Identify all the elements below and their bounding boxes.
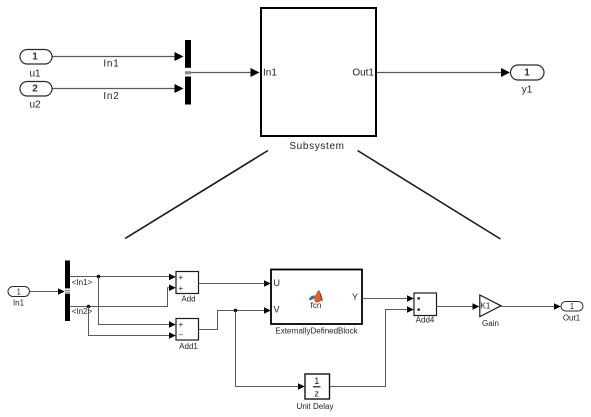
svg-text:y1: y1 bbox=[522, 85, 533, 96]
sum block Add bbox=[176, 272, 199, 304]
svg-text:+: + bbox=[179, 284, 184, 293]
inport In1 (lower) bbox=[8, 287, 30, 308]
svg-text:+: + bbox=[179, 320, 184, 329]
svg-text:Y: Y bbox=[352, 292, 358, 302]
wire Add1 to ExternallyDefinedBlock V bbox=[199, 307, 271, 329]
subsystem Subsystem bbox=[261, 8, 376, 152]
svg-text:V: V bbox=[274, 305, 280, 315]
svg-text:1: 1 bbox=[314, 376, 319, 387]
wire signal In2 branch to Add1 port2 bbox=[89, 307, 176, 339]
svg-text:Add1: Add1 bbox=[179, 342, 198, 351]
wire Gain to Out1 bbox=[501, 303, 561, 310]
wire signal In1 from Demux to Add port1 bbox=[70, 274, 176, 287]
wire Unit Delay to Add4 port2 bbox=[330, 306, 414, 386]
svg-text:2: 2 bbox=[32, 84, 38, 95]
unit delay Unit Delay bbox=[297, 374, 334, 411]
svg-text:U: U bbox=[274, 278, 281, 288]
wire u2 to Mux bbox=[53, 84, 184, 102]
svg-text:In1: In1 bbox=[13, 299, 25, 308]
mux Mux bbox=[185, 40, 191, 105]
svg-text:Gain: Gain bbox=[482, 319, 499, 328]
wire signal In1 branch to Add1 port1 bbox=[99, 277, 176, 328]
svg-text:Subsystem: Subsystem bbox=[289, 141, 344, 152]
svg-text:fcn: fcn bbox=[311, 301, 322, 310]
sum block Add1 bbox=[176, 319, 199, 352]
svg-text:1: 1 bbox=[16, 288, 21, 297]
svg-text:1: 1 bbox=[570, 302, 575, 311]
wire Mux to Subsystem In1 bbox=[191, 68, 260, 77]
sum block Add4 bbox=[414, 293, 437, 325]
svg-text:<In1>: <In1> bbox=[72, 278, 93, 287]
svg-text:Unit Delay: Unit Delay bbox=[297, 402, 334, 411]
svg-text:1: 1 bbox=[524, 67, 530, 78]
svg-text:−: − bbox=[179, 331, 184, 340]
gain Gain bbox=[480, 295, 501, 328]
inport u1 bbox=[20, 50, 52, 80]
svg-text:z: z bbox=[314, 389, 319, 400]
wire V branch down to Unit Delay bbox=[236, 311, 305, 390]
wire Y to Add4 port1 bbox=[362, 295, 414, 302]
svg-text:1: 1 bbox=[32, 52, 38, 63]
node junction on signal In1 bbox=[97, 275, 101, 279]
wire Add4 to Gain bbox=[437, 303, 480, 310]
node junction on V wire bbox=[234, 309, 238, 313]
expansion line left bbox=[125, 151, 268, 239]
demux Demux bbox=[65, 261, 70, 322]
inport u2 bbox=[20, 82, 52, 111]
expansion line right bbox=[358, 151, 501, 240]
wire signal In2 from Demux bbox=[70, 284, 176, 316]
svg-text:Out1: Out1 bbox=[352, 68, 374, 79]
svg-text:In1: In1 bbox=[103, 59, 119, 70]
subsystem ExternallyDefinedBlock bbox=[271, 270, 362, 336]
wire u1 to Mux bbox=[53, 52, 184, 70]
svg-text:u2: u2 bbox=[29, 100, 41, 111]
svg-text:Out1: Out1 bbox=[563, 314, 581, 323]
svg-text:K1: K1 bbox=[481, 301, 491, 310]
svg-text:<In2>: <In2> bbox=[72, 307, 93, 316]
node junction on signal In2 bbox=[87, 305, 91, 309]
svg-text:In2: In2 bbox=[103, 91, 119, 102]
icon fcn (MATLAB logo) bbox=[309, 290, 323, 310]
outport Out1 bbox=[561, 302, 583, 323]
wire Subsystem Out1 to y1 bbox=[377, 68, 510, 77]
svg-text:u1: u1 bbox=[29, 68, 41, 79]
svg-text:In1: In1 bbox=[263, 68, 277, 79]
svg-text:Add4: Add4 bbox=[416, 316, 435, 325]
wire In1 to Demux bbox=[30, 288, 65, 295]
wire Add to ExternallyDefinedBlock U bbox=[199, 280, 271, 287]
svg-text:+: + bbox=[179, 273, 184, 282]
outport y1 bbox=[511, 65, 545, 96]
svg-text:Add: Add bbox=[181, 295, 195, 304]
svg-text:ExternallyDefinedBlock: ExternallyDefinedBlock bbox=[275, 327, 358, 336]
